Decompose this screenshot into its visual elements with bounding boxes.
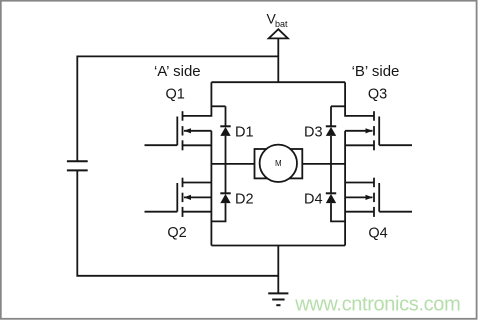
wire capacitor top branch [77,56,278,161]
svg-text:D4: D4 [304,192,323,208]
wire Q1 drain to top rail [183,82,212,116]
wire D1 tap [211,105,225,107]
svg-text:D2: D2 [235,192,254,208]
svg-text:Q2: Q2 [167,225,186,241]
wire D4 anode return [331,203,345,221]
wire Q3 drain to top rail [345,82,374,116]
diode D3 [326,126,336,136]
svg-text:Q1: Q1 [166,86,185,102]
svg-text:‘A’ side: ‘A’ side [154,63,201,80]
transistor Q1 [145,111,212,150]
transistor Q2 [145,178,212,217]
wire D1 anode to D2 cathode [225,136,227,193]
power symbol V_bat [269,29,288,38]
wire D3 anode to D4 cathode [330,136,332,193]
svg-text:Q4: Q4 [368,225,387,241]
svg-text:M: M [275,159,282,168]
svg-text:‘B’ side: ‘B’ side [352,63,400,80]
wire motor left lead [211,163,254,165]
ground [268,293,288,305]
wire motor right lead [302,163,345,165]
wire node B vertical [344,131,346,246]
net label V_bat [267,10,289,29]
transistor Q4 [345,178,412,217]
svg-text:D3: D3 [304,124,323,140]
svg-text:D1: D1 [235,124,254,140]
transistor Q3 [345,111,412,150]
wire D1 cathode lead [225,106,227,126]
svg-text:www.cntronics.com: www.cntronics.com [294,294,460,316]
svg-text:bat: bat [275,19,288,29]
wire top rail [211,81,345,83]
diode D4 [326,193,336,203]
wire capacitor bottom branch [77,170,278,275]
wire bottom rail [211,245,345,247]
wire V_bat drop [277,38,279,82]
diode D1 [220,126,230,136]
wire D2 anode return [211,203,225,221]
wire node A vertical [210,131,212,246]
capacitor [67,161,88,170]
wire D3 tap [331,105,345,107]
svg-text:Q3: Q3 [368,87,387,103]
motor M [255,145,303,182]
diode D2 [220,193,230,203]
wire ground drop [277,246,279,294]
wire D3 cathode lead [330,106,332,126]
